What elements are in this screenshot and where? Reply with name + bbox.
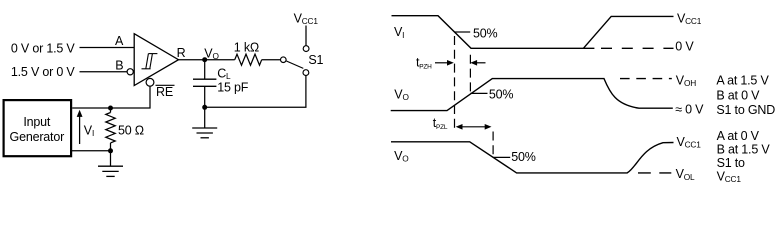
wire VO node down to capacitor bbox=[204, 60, 206, 79]
waveform VI trace bbox=[392, 16, 674, 49]
svg-text:tPZL: tPZL bbox=[433, 116, 448, 131]
svg-text:1 kΩ: 1 kΩ bbox=[234, 41, 259, 55]
dashed level VOL bbox=[638, 172, 671, 174]
50% tick on VO rising edge bbox=[470, 92, 487, 94]
input generator box bbox=[4, 100, 72, 156]
resistor R1 1 kOhm bbox=[205, 54, 281, 65]
50% tick on VI falling edge bbox=[455, 31, 471, 33]
dashed level 0 V bbox=[601, 47, 674, 49]
svg-text:S1 to GND: S1 to GND bbox=[716, 103, 775, 117]
switch S1 bottom throw contact bbox=[303, 70, 309, 76]
switch S1 top throw contact bbox=[303, 46, 309, 52]
dashed cursor at VO fall 50% bbox=[492, 132, 494, 157]
svg-text:VOL: VOL bbox=[676, 167, 695, 182]
junction dot generator top bbox=[108, 106, 113, 111]
node VO junction dot bbox=[202, 57, 207, 62]
svg-text:VCC1: VCC1 bbox=[677, 11, 702, 26]
dashed level VOH bbox=[620, 78, 672, 80]
inversion bubble on B input bbox=[127, 69, 133, 75]
condition text block 1 bbox=[716, 74, 775, 118]
waveform VO trace (tPZH) bbox=[391, 79, 673, 111]
switch S1 pole contact bbox=[281, 57, 287, 63]
arrow tPZH right bbox=[470, 60, 485, 66]
svg-text:A: A bbox=[115, 34, 124, 48]
power VCC1 terminal wire bbox=[305, 26, 307, 46]
wire output R to VO node bbox=[179, 59, 205, 61]
svg-text:Generator: Generator bbox=[10, 130, 65, 144]
junction dot generator bottom bbox=[108, 148, 113, 153]
svg-text:VCC1: VCC1 bbox=[294, 12, 319, 27]
pin label RE (overline) bbox=[156, 85, 175, 99]
svg-text:VO: VO bbox=[394, 88, 409, 103]
svg-text:50%: 50% bbox=[511, 150, 536, 164]
svg-text:A at 0 V: A at 0 V bbox=[717, 129, 760, 143]
svg-text:VOH: VOH bbox=[676, 74, 696, 89]
ground symbol (generator side) bbox=[98, 151, 123, 177]
wire input A bbox=[80, 47, 135, 49]
dashed cursor at VO rise 50% bbox=[469, 55, 471, 93]
ground symbol (load side) bbox=[192, 107, 217, 138]
svg-text:≈ 0 V: ≈ 0 V bbox=[675, 103, 704, 117]
wire bottom throw to ground rail bbox=[205, 76, 306, 108]
svg-text:VI: VI bbox=[84, 123, 94, 138]
svg-text:S1: S1 bbox=[308, 53, 323, 67]
switch S1 blade bbox=[286, 61, 303, 69]
condition text block 2 bbox=[717, 129, 771, 184]
50% tick on VO falling edge bbox=[493, 156, 510, 158]
svg-text:0 V or 1.5 V: 0 V or 1.5 V bbox=[11, 42, 75, 56]
svg-text:B at 0 V: B at 0 V bbox=[716, 88, 760, 102]
svg-text:50%: 50% bbox=[489, 88, 514, 102]
svg-text:VCC1: VCC1 bbox=[677, 135, 702, 150]
svg-text:50 Ω: 50 Ω bbox=[118, 123, 144, 137]
op-amp U1 receiver triangle bbox=[134, 34, 178, 86]
svg-text:S1 to: S1 to bbox=[717, 156, 745, 170]
dashed cursor at VI 50% bbox=[454, 36, 456, 130]
arrow VI (input voltage) bbox=[77, 110, 83, 144]
arrow tPZH left bbox=[435, 60, 454, 66]
svg-text:50%: 50% bbox=[473, 26, 498, 40]
svg-text:VCC1: VCC1 bbox=[717, 169, 742, 184]
svg-text:R: R bbox=[177, 46, 186, 60]
svg-text:CL: CL bbox=[217, 67, 231, 82]
svg-text:1.5 V or 0 V: 1.5 V or 0 V bbox=[11, 65, 75, 79]
svg-text:B at 1.5 V: B at 1.5 V bbox=[717, 143, 771, 157]
junction dot ground node bbox=[202, 105, 207, 110]
svg-text:15 pF: 15 pF bbox=[217, 81, 249, 95]
waveform VO trace (tPZL) bbox=[391, 142, 674, 173]
svg-text:VO: VO bbox=[394, 149, 409, 164]
input generator label bbox=[10, 115, 65, 144]
resistor R2 50 Ohm bbox=[106, 108, 115, 151]
svg-text:0 V: 0 V bbox=[675, 40, 694, 54]
svg-text:tPZH: tPZH bbox=[416, 55, 432, 70]
svg-text:A at 1.5 V: A at 1.5 V bbox=[716, 74, 769, 88]
wire generator bottom terminal bbox=[72, 150, 111, 152]
enable bubble on RE pin bbox=[146, 78, 154, 86]
svg-text:B: B bbox=[115, 59, 123, 73]
svg-text:RE: RE bbox=[156, 85, 173, 99]
arrow tPZL double bbox=[456, 124, 492, 130]
hysteresis symbol inside U1 bbox=[142, 54, 158, 69]
capacitor C_L bbox=[193, 79, 216, 86]
wire from RE bubble down to generator net bbox=[72, 86, 150, 108]
svg-text:VI: VI bbox=[394, 25, 404, 40]
svg-text:Input: Input bbox=[23, 115, 51, 129]
wire input B bbox=[80, 71, 128, 73]
wire capacitor to ground node bbox=[204, 86, 206, 107]
